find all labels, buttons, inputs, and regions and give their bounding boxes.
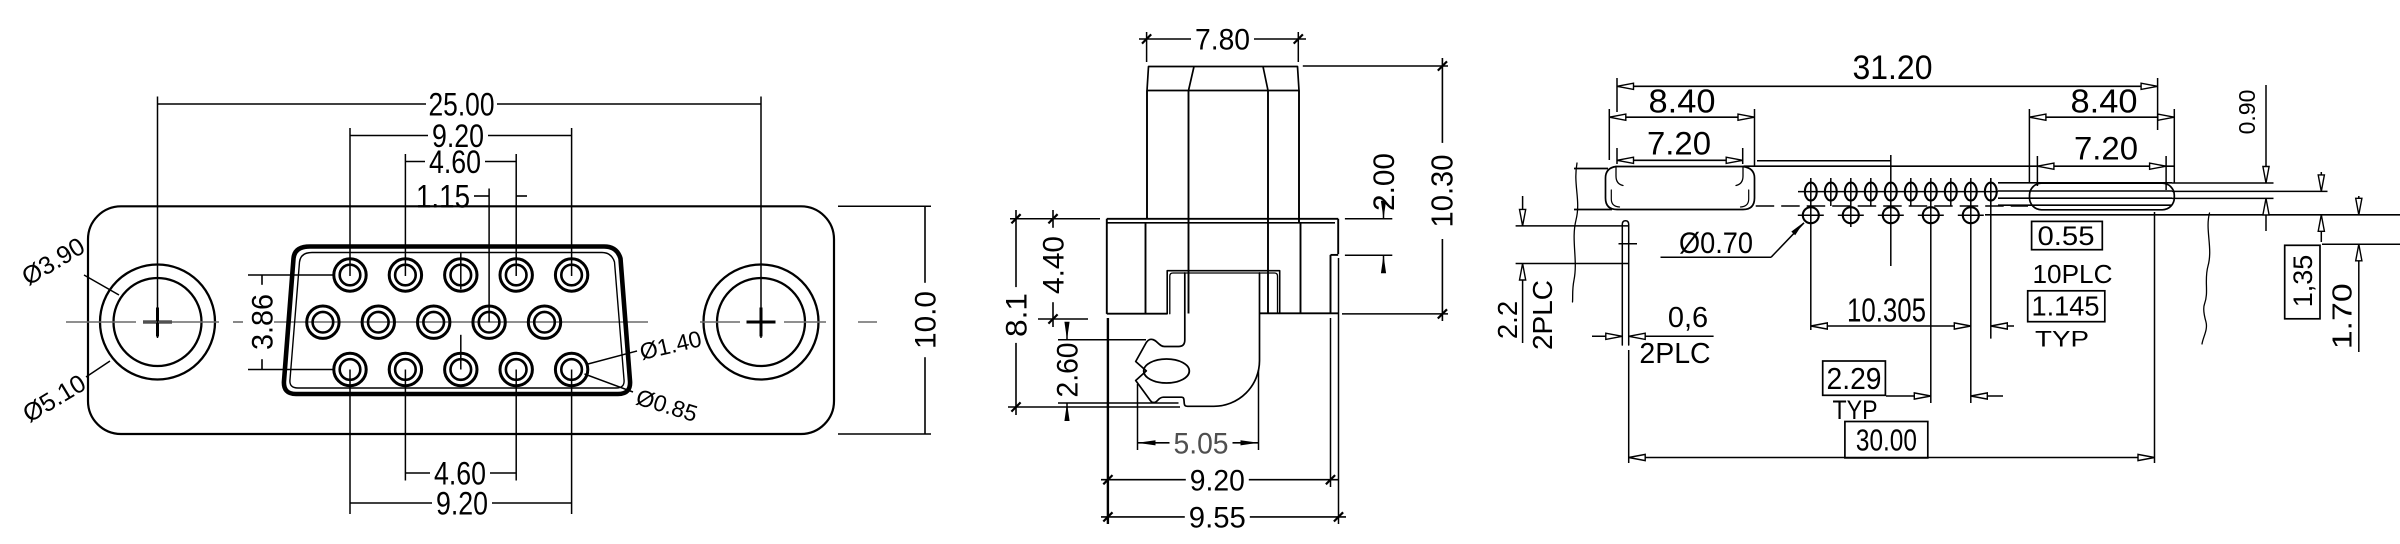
svg-text:10.30: 10.30	[1425, 155, 1460, 228]
svg-text:9.20: 9.20	[436, 485, 488, 521]
svg-text:7.80: 7.80	[1195, 24, 1250, 57]
svg-text:5.05: 5.05	[1174, 427, 1229, 460]
svg-text:1.145: 1.145	[2032, 290, 2100, 321]
svg-text:7.20: 7.20	[2074, 131, 2138, 167]
svg-text:2PLC: 2PLC	[1527, 280, 1558, 350]
svg-text:7.20: 7.20	[1647, 125, 1711, 161]
svg-text:8.40: 8.40	[2071, 83, 2138, 120]
svg-text:31.20: 31.20	[1853, 49, 1933, 87]
svg-text:3.86: 3.86	[247, 294, 280, 350]
svg-text:8.40: 8.40	[1649, 83, 1716, 120]
svg-text:0,6: 0,6	[1668, 302, 1708, 334]
svg-text:1,35: 1,35	[2288, 255, 2318, 308]
svg-text:2.2: 2.2	[1492, 301, 1523, 339]
svg-text:10.305: 10.305	[1847, 292, 1926, 329]
svg-text:0.90: 0.90	[2234, 90, 2260, 135]
svg-text:2.60: 2.60	[1052, 343, 1085, 398]
svg-text:2.29: 2.29	[1827, 361, 1882, 396]
svg-text:30.00: 30.00	[1856, 423, 1917, 458]
svg-text:9.20: 9.20	[1190, 464, 1245, 497]
svg-text:1.70: 1.70	[2326, 283, 2357, 349]
svg-text:10PLC: 10PLC	[2033, 261, 2113, 289]
svg-text:2PLC: 2PLC	[1639, 338, 1710, 370]
svg-text:10.0: 10.0	[910, 291, 943, 349]
svg-text:9.55: 9.55	[1189, 502, 1246, 535]
svg-text:4.40: 4.40	[1038, 236, 1071, 294]
svg-text:8.1: 8.1	[1001, 293, 1034, 337]
svg-text:Ø0.70: Ø0.70	[1679, 227, 1753, 260]
svg-text:TYP: TYP	[2035, 326, 2089, 351]
svg-text:TYP: TYP	[1833, 395, 1878, 425]
svg-text:0.55: 0.55	[2038, 221, 2095, 251]
svg-text:1.15: 1.15	[416, 178, 470, 214]
svg-text:4.60: 4.60	[429, 144, 481, 180]
